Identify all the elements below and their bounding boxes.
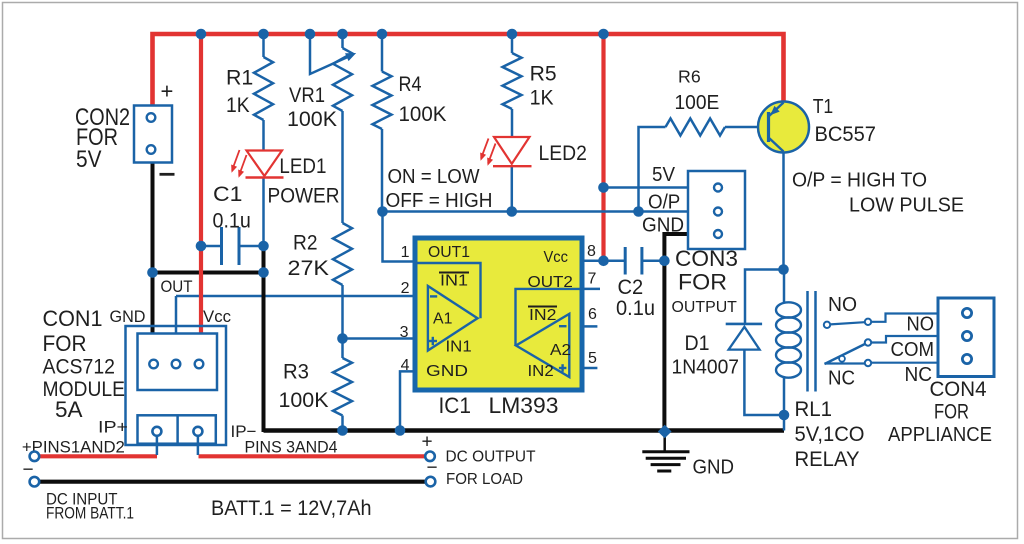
- svg-text:NC: NC: [905, 364, 933, 386]
- svg-text:GND: GND: [642, 214, 684, 236]
- wire base branch: [639, 127, 666, 212]
- wire DC input negative (black): [40, 480, 426, 484]
- svg-text:100E: 100E: [675, 92, 720, 114]
- wire ground vertical (black): [262, 246, 266, 432]
- svg-text:GND: GND: [693, 456, 735, 478]
- svg-text:R2: R2: [293, 231, 318, 254]
- svg-text:CON4: CON4: [930, 378, 987, 401]
- op-amp IC1 LM393 body: [415, 238, 582, 390]
- wire IC pin2 from ACS712 OUT (blue): [176, 295, 415, 298]
- capacitor C2: [604, 260, 626, 263]
- wire DC output positive right segment (red): [199, 454, 425, 458]
- relay armature: [825, 344, 865, 364]
- svg-text:−: −: [427, 457, 438, 478]
- svg-text:6: 6: [588, 306, 597, 323]
- contact NO: [824, 322, 830, 328]
- svg-text:LOW PULSE: LOW PULSE: [849, 193, 964, 216]
- junction dots: [196, 29, 207, 40]
- svg-text:COM: COM: [891, 339, 935, 361]
- resistor R6: [666, 119, 726, 136]
- module CON1 pin box: [138, 334, 218, 391]
- svg-text:OUTPUT: OUTPUT: [672, 299, 738, 316]
- svg-text:O/P: O/P: [648, 192, 680, 214]
- svg-text:IN1: IN1: [446, 339, 472, 356]
- pin 6: [582, 325, 597, 328]
- wire DC output positive left segment (red): [40, 454, 158, 458]
- svg-text:5V: 5V: [652, 164, 676, 186]
- svg-text:POWER: POWER: [268, 184, 340, 207]
- led LED1: [262, 178, 265, 247]
- svg-text:4: 4: [401, 357, 410, 374]
- svg-text:D1: D1: [685, 332, 710, 355]
- svg-text:R3: R3: [283, 360, 309, 383]
- svg-text:FOR LOAD: FOR LOAD: [446, 471, 523, 488]
- relay RL1 coil: [783, 270, 786, 304]
- plus sign pin5: [559, 367, 567, 369]
- svg-text:5V,1CO: 5V,1CO: [795, 423, 865, 446]
- svg-text:1K: 1K: [226, 94, 250, 117]
- svg-text:A1: A1: [433, 311, 452, 328]
- svg-text:IC1: IC1: [439, 393, 472, 418]
- svg-text:FROM BATT.1: FROM BATT.1: [46, 503, 134, 522]
- svg-text:RELAY: RELAY: [795, 448, 860, 471]
- relay core: [806, 291, 809, 392]
- svg-text:A2: A2: [550, 342, 571, 359]
- svg-text:LED1: LED1: [279, 155, 326, 178]
- svg-text:GND: GND: [426, 363, 468, 380]
- svg-text:R1: R1: [226, 67, 253, 90]
- svg-text:IN2: IN2: [529, 307, 557, 324]
- svg-text:100K: 100K: [399, 103, 447, 126]
- svg-text:O/P = HIGH TO: O/P = HIGH TO: [792, 168, 927, 191]
- svg-text:T1: T1: [813, 96, 834, 118]
- ground symbol: [663, 432, 666, 451]
- svg-text:100K: 100K: [287, 108, 337, 131]
- svg-text:5A: 5A: [55, 397, 83, 422]
- svg-text:CON3: CON3: [675, 246, 738, 271]
- svg-text:Vcc: Vcc: [544, 249, 568, 266]
- comparator A2: [516, 314, 569, 377]
- resistor R1: [262, 34, 265, 57]
- svg-text:1: 1: [401, 244, 410, 261]
- svg-text:C2: C2: [618, 276, 644, 299]
- wire IP- stub: [197, 437, 200, 455]
- transistor T1: [758, 102, 809, 153]
- junction ground diamond: [658, 425, 672, 438]
- svg-text:CON1: CON1: [43, 306, 103, 331]
- svg-text:3: 3: [400, 324, 409, 341]
- wire CON1 GND pin (black): [151, 273, 155, 335]
- svg-text:BATT.1 = 12V,7Ah: BATT.1 = 12V,7Ah: [211, 496, 372, 520]
- svg-text:Vcc: Vcc: [203, 307, 231, 326]
- pin 3: [343, 337, 416, 340]
- svg-text:+: +: [161, 78, 174, 103]
- svg-text:IN1: IN1: [440, 272, 468, 289]
- connector CON2: [134, 106, 172, 163]
- connector CON3: [688, 171, 745, 249]
- svg-text:NO: NO: [828, 294, 857, 316]
- svg-text:2: 2: [401, 280, 410, 297]
- svg-text:OFF = HIGH: OFF = HIGH: [386, 190, 493, 212]
- svg-text:VR1: VR1: [289, 84, 325, 107]
- svg-text:+: +: [422, 431, 433, 452]
- wire 5V vertical branch (red): [601, 32, 605, 261]
- module CON1 IP box: [138, 415, 216, 443]
- terminal DC input minus: [30, 477, 40, 487]
- wire ground rail (black): [264, 428, 785, 433]
- connector CON4: [938, 298, 994, 377]
- resistor R3: [341, 339, 344, 359]
- svg-text:BC557: BC557: [815, 123, 877, 146]
- svg-text:RL1: RL1: [795, 398, 833, 421]
- pin 8: [582, 260, 604, 263]
- svg-text:OUT1: OUT1: [428, 244, 470, 261]
- contact NC: [825, 362, 865, 364]
- contact COM: [865, 339, 871, 345]
- wire output node O/P: [383, 210, 689, 213]
- pin 7: [582, 288, 600, 291]
- wire CON3 GND to ground rail (black): [664, 234, 688, 431]
- svg-text:R5: R5: [530, 63, 557, 86]
- wire +5V top rail (red): [153, 34, 784, 106]
- terminal DC input plus: [30, 452, 40, 462]
- wiper of VR1: [310, 34, 351, 74]
- wire OUT1 pin1 elbow: [383, 212, 416, 262]
- svg-text:5V: 5V: [76, 146, 102, 173]
- svg-text:FOR: FOR: [43, 331, 87, 356]
- svg-text:IN2: IN2: [528, 363, 554, 380]
- svg-text:ACS712: ACS712: [43, 354, 116, 378]
- svg-text:0.1u: 0.1u: [213, 209, 251, 232]
- svg-text:IP+: IP+: [98, 418, 128, 437]
- potentiometer VR1: [341, 34, 344, 48]
- svg-text:OUT: OUT: [161, 277, 193, 296]
- capacitor C1: [201, 245, 222, 248]
- module CON1 outer box: [126, 326, 227, 445]
- resistor R5: [511, 34, 514, 53]
- wire IP+ stub: [156, 437, 159, 455]
- svg-text:LM393: LM393: [489, 393, 559, 418]
- svg-text:NC: NC: [828, 367, 855, 389]
- resistor R2: [333, 223, 352, 285]
- svg-text:0.1u: 0.1u: [616, 297, 655, 320]
- pin 4: [400, 371, 415, 430]
- svg-text:C1: C1: [213, 183, 242, 206]
- label CON2 minus: [160, 173, 175, 176]
- diode D1: [745, 270, 784, 324]
- svg-text:OUT2: OUT2: [528, 274, 574, 291]
- svg-text:1N4007: 1N4007: [672, 356, 740, 378]
- svg-text:FOR: FOR: [678, 269, 727, 294]
- svg-text:1K: 1K: [530, 87, 554, 110]
- svg-text:DC OUTPUT: DC OUTPUT: [446, 448, 536, 465]
- svg-text:−: −: [23, 459, 34, 480]
- led LED2: [511, 166, 514, 212]
- svg-text:100K: 100K: [279, 389, 329, 412]
- pin 5: [582, 367, 597, 370]
- svg-text:NO: NO: [907, 313, 935, 335]
- plus sign pin3: [429, 340, 437, 342]
- minus sign pin2: [430, 295, 437, 297]
- terminal DC output plus: [425, 452, 435, 462]
- svg-text:APPLIANCE: APPLIANCE: [888, 424, 992, 446]
- wire OUT to pin2: [175, 296, 178, 335]
- svg-text:R6: R6: [678, 67, 701, 87]
- svg-text:27K: 27K: [288, 257, 330, 280]
- svg-text:8: 8: [587, 243, 596, 260]
- svg-text:7: 7: [588, 270, 597, 287]
- wire T1 collector: [782, 152, 785, 270]
- svg-text:R4: R4: [399, 73, 422, 96]
- svg-text:LED2: LED2: [539, 142, 587, 165]
- svg-text:ON = LOW: ON = LOW: [388, 166, 480, 188]
- wire CON2 minus to ground bus (black): [153, 163, 264, 273]
- terminal DC output minus: [426, 477, 436, 487]
- svg-text:GND: GND: [110, 307, 146, 326]
- svg-text:5: 5: [588, 350, 597, 367]
- svg-text:FOR: FOR: [934, 400, 969, 423]
- comparator A1: [428, 286, 478, 351]
- wire 5V to CON3: [604, 186, 689, 189]
- minus sign pin6: [559, 325, 567, 327]
- wire Vcc branch to CON1 (red): [199, 32, 203, 335]
- resistor R4: [381, 34, 384, 72]
- svg-text:PINS 3AND4: PINS 3AND4: [245, 437, 338, 456]
